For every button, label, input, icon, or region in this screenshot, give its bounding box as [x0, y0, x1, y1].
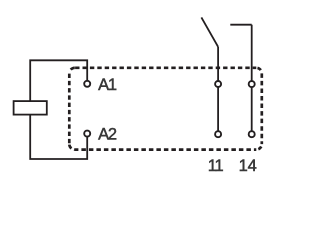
terminal A2: [84, 131, 90, 137]
coil K1: [14, 101, 47, 115]
relay enclosure top edge (dashed): [75, 66, 256, 69]
wire pin 11: [217, 87, 219, 131]
wire fixed contact to contact 14 upper terminal: [251, 25, 253, 81]
wire coil top to terminal A1: [30, 60, 87, 101]
svg-text:14: 14: [239, 157, 257, 175]
terminal A1: [84, 81, 90, 87]
relay enclosure left edge (dashed): [68, 73, 71, 144]
svg-text:11: 11: [208, 157, 224, 175]
relay enclosure top-right corner (dashed): [256, 68, 262, 74]
svg-text:A2: A2: [98, 126, 117, 144]
relay enclosure right edge (dashed): [260, 73, 263, 144]
contact 14 upper terminal: [249, 81, 255, 87]
relay enclosure bottom-left corner (dashed): [69, 144, 75, 150]
relay enclosure bottom-right corner (dashed): [256, 144, 262, 150]
svg-text:A1: A1: [98, 76, 117, 94]
fixed contact 14 (top bar): [230, 24, 251, 26]
pin 11 lower terminal: [215, 131, 221, 137]
contact 11 upper terminal: [215, 81, 221, 87]
wire terminal A2 to coil bottom: [30, 115, 87, 159]
switch arm (movable contact from pin 11): [201, 17, 218, 46]
relay enclosure bottom edge (dashed): [75, 148, 256, 151]
relay enclosure top-left corner (dashed): [69, 68, 75, 74]
wire arm to contact 11 upper terminal: [217, 47, 219, 81]
pin 14 lower terminal: [249, 131, 255, 137]
wire pin 14: [251, 87, 253, 131]
